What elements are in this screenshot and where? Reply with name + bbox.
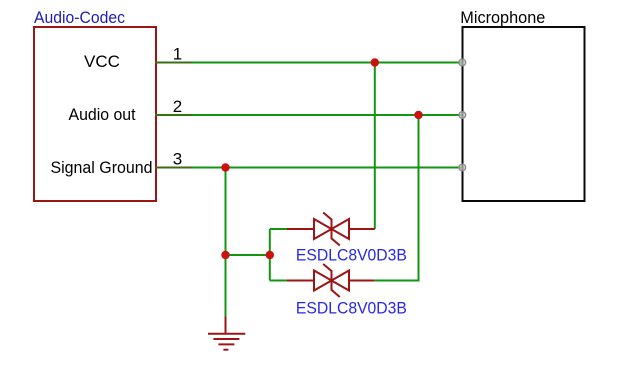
TVS diode D2 ESDLC8V0D3B [287,264,374,297]
svg-text:Signal Ground: Signal Ground [51,158,153,177]
svg-text:Audio-Codec: Audio-Codec [34,8,125,27]
wire to D1 anode [270,228,288,230]
wire vertical from VCC net down to D1 cathode [374,63,376,230]
microphone terminal dot 3 [459,164,466,171]
TVS diode D1 ESDLC8V0D3B [287,213,375,246]
junction dot on Signal Ground net [221,163,229,171]
svg-text:Microphone: Microphone [460,8,545,27]
svg-text:3: 3 [173,150,182,169]
svg-text:VCC: VCC [84,52,120,71]
wire net Audio out (pin 2 to microphone) [155,114,462,116]
svg-text:ESDLC8V0D3B: ESDLC8V0D3B [296,298,407,317]
wire vertical from Audio out net down then left to D2 cathode [374,115,418,281]
junction dot at ground branch left [221,251,229,259]
wire net Signal Ground (pin 3 to microphone) [155,167,462,169]
microphone terminal dot 1 [459,59,466,66]
pin stub 2 [155,114,192,116]
junction dot on Audio out net [414,111,422,119]
wire vertical from Signal Ground net down to ground [225,168,227,318]
wire horizontal between junctions [226,254,270,256]
pin stub 1 [155,62,192,64]
ground symbol [208,317,245,350]
wire to D2 anode [270,280,288,282]
svg-text:Audio out: Audio out [69,105,136,124]
microphone terminal dot 2 [459,112,466,119]
component box Microphone [463,27,585,201]
component box U1 Audio-Codec [34,27,156,201]
junction dot on VCC net [371,58,379,66]
svg-text:2: 2 [173,97,182,116]
wire net VCC (pin 1 to microphone) [155,62,462,64]
pin stub 3 [155,167,192,169]
wire vertical branch to both diode anodes [269,229,271,281]
junction dot at diode branch [266,251,274,259]
svg-text:ESDLC8V0D3B: ESDLC8V0D3B [296,246,407,265]
svg-text:1: 1 [173,45,182,64]
